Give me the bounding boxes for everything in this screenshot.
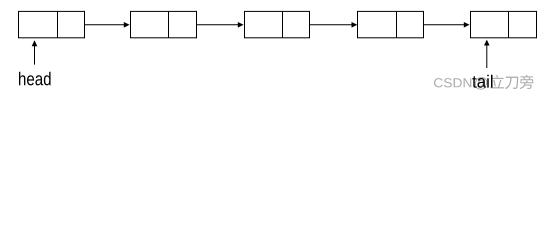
watermark CSDN (434, 78, 471, 87)
node5 box (471, 11, 537, 37)
wire arrow node2 to node3 (197, 22, 244, 28)
watermark @ (475, 77, 487, 90)
node4 box (358, 11, 424, 37)
watermark char 立 (490, 75, 504, 88)
head label (19, 72, 51, 86)
tail pointer arrow (484, 40, 490, 68)
node2 box (131, 11, 197, 37)
node3 box (245, 11, 310, 37)
head pointer arrow (32, 40, 38, 64)
wire arrow node4 to node5 (424, 22, 470, 28)
watermark char 刀 (505, 77, 518, 89)
tail label (472, 75, 492, 88)
watermark char 旁 (520, 75, 534, 89)
wire arrow node3 to node4 (310, 22, 358, 28)
wire arrow node1 to node2 (85, 22, 130, 28)
node1 box (19, 11, 85, 37)
